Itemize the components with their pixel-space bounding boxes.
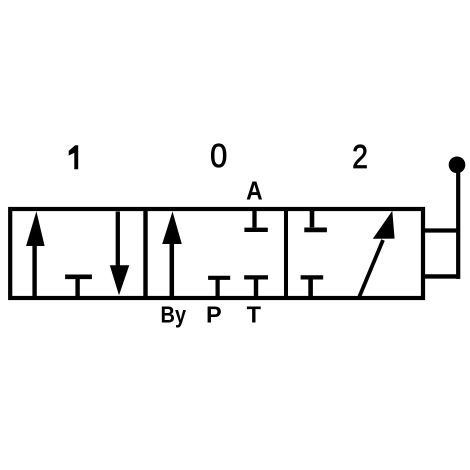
svg-text:0: 0 xyxy=(210,137,227,174)
lever bracket bottom stub xyxy=(423,274,460,278)
position 0 port P (bottom blocked port) xyxy=(208,278,230,298)
label 1 xyxy=(69,145,79,169)
valve body outline xyxy=(10,209,423,298)
svg-text:2: 2 xyxy=(352,138,368,176)
svg-text:By: By xyxy=(161,301,187,328)
lever knob xyxy=(449,156,466,173)
lever bracket top stub xyxy=(423,228,458,232)
position 2 top blocked port xyxy=(304,209,327,230)
position 1 blocked port (T symbol) xyxy=(65,277,92,298)
divider between position 0 and 2 xyxy=(284,207,288,300)
svg-text:A: A xyxy=(246,177,263,206)
lever shaft xyxy=(456,170,460,279)
position 1 up arrow xyxy=(26,211,44,296)
position 0 By up arrow xyxy=(162,212,182,297)
position 0 port T (bottom blocked port) xyxy=(244,277,268,298)
divider between position 1 and 0 xyxy=(143,207,147,300)
svg-text:T: T xyxy=(247,302,262,328)
svg-text:P: P xyxy=(206,302,222,328)
position 0 port A (top blocked port) xyxy=(244,209,267,230)
position 1 down arrow xyxy=(110,212,130,296)
position 2 bottom blocked port xyxy=(301,277,324,298)
position 2 diagonal arrow xyxy=(359,211,394,297)
